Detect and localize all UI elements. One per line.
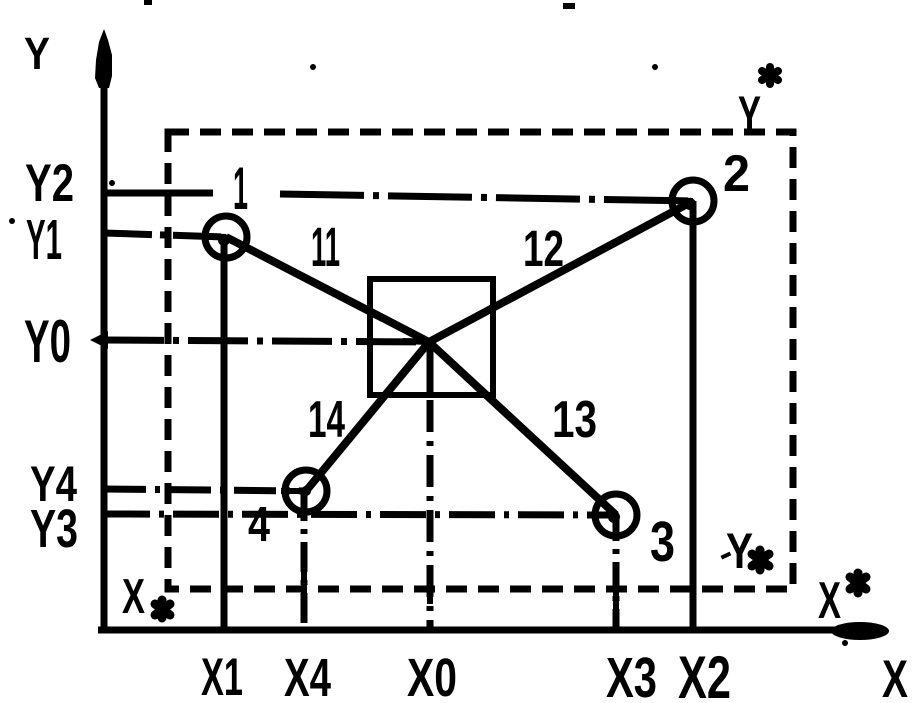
- dash-dot line Y0: [104, 340, 429, 342]
- label X* bottom left (subscript asterisk): [122, 570, 170, 624]
- X3 tick across bottom dashed edge: [613, 578, 619, 610]
- point 2 circle: [672, 180, 714, 222]
- dash-dot line Y3: [104, 514, 616, 515]
- dash-dot line Y4: [104, 489, 306, 491]
- svg-text:X: X: [122, 570, 145, 624]
- svg-text:Y0: Y0: [24, 308, 71, 375]
- svg-text:Y: Y: [738, 86, 761, 145]
- point 3 circle: [595, 494, 637, 536]
- svg-text:11: 11: [311, 215, 340, 278]
- svg-text:1: 1: [233, 155, 248, 222]
- segment 14 from center to point 4: [306, 342, 429, 491]
- dash-dot line Y2 right part to point 2: [280, 194, 693, 201]
- svg-text:X1: X1: [201, 648, 243, 703]
- svg-text:X3: X3: [606, 646, 657, 703]
- svg-text:X: X: [882, 650, 908, 703]
- Y0 approach segment into center: [403, 341, 429, 342]
- segment 12 from center to point 2: [429, 201, 693, 342]
- svg-text:3: 3: [650, 510, 675, 574]
- Y0 axis tick: [90, 331, 108, 349]
- svg-text:X4: X4: [284, 648, 331, 703]
- svg-text:X2: X2: [678, 644, 731, 703]
- svg-text:Y2: Y2: [25, 154, 74, 213]
- svg-text:X: X: [818, 572, 841, 630]
- dash-dot line Y2 left part: [104, 190, 213, 197]
- svg-text:14: 14: [308, 391, 345, 449]
- dash-dot vertical X3: [613, 515, 620, 628]
- label Y* bottom right (subscript asterisk): [726, 523, 769, 579]
- Y axis: [95, 29, 112, 628]
- center square (point 0): [370, 279, 493, 395]
- label Y* top right: [738, 67, 778, 145]
- ink blob at point 2 center: [684, 198, 696, 210]
- ink blob at point 4 center: [301, 486, 311, 496]
- ink blob at point 3 center: [608, 511, 620, 523]
- svg-text:Y: Y: [24, 28, 50, 79]
- svg-text:2: 2: [723, 145, 750, 203]
- segment 11 from point 1 to center: [226, 237, 429, 342]
- solid vertical X0 inside square: [427, 342, 434, 396]
- dash-dot vertical X0 below square: [427, 400, 434, 628]
- ink blob at point 1 center: [218, 234, 230, 246]
- X4 tick across bottom dashed edge: [301, 570, 307, 602]
- solid vertical X2: [690, 201, 697, 628]
- X axis: [98, 622, 889, 640]
- Y2 approach segment into point 2: [668, 200, 693, 201]
- solid vertical X1: [221, 237, 228, 628]
- svg-text:X0: X0: [407, 648, 457, 703]
- label X* right of box (superscript asterisk): [818, 572, 866, 630]
- point 4 circle: [285, 470, 327, 512]
- dash-dot line Y1: [104, 233, 226, 237]
- svg-text:12: 12: [523, 220, 564, 277]
- svg-text:4: 4: [248, 498, 270, 552]
- dash-dot vertical X4: [301, 491, 308, 628]
- Y4 approach segment into point 4: [281, 488, 306, 494]
- svg-text:Y3: Y3: [30, 499, 78, 559]
- Y1 approach segment into point 1: [200, 236, 226, 237]
- svg-text:Y1: Y1: [26, 208, 62, 272]
- X0 tick across bottom dashed edge: [427, 574, 433, 604]
- point 1 circle: [205, 216, 247, 258]
- Y3 approach segment into point 3: [590, 512, 616, 518]
- svg-text:13: 13: [552, 391, 597, 449]
- segment 13 from center to point 3: [429, 342, 616, 515]
- dashed working-zone rectangle: [168, 132, 793, 589]
